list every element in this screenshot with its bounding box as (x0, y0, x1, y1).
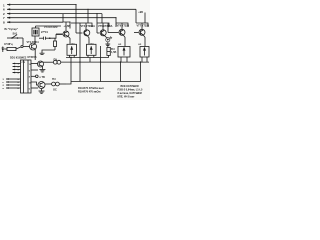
svg-text:47 МГц: 47 МГц (4, 43, 13, 46)
svg-text:+4,5В: +4,5В (64, 25, 71, 28)
svg-text:VT1 ГТ311: VT1 ГТ311 (27, 41, 40, 44)
svg-text:КПЕ, НЧ 8 вит: КПЕ, НЧ 8 вит (118, 95, 136, 98)
svg-text:1,5В: 1,5В (111, 51, 116, 54)
svg-text:VT6 КТ325: VT6 КТ325 (117, 24, 130, 27)
svg-text:ОС: ОС (53, 89, 57, 92)
svg-text:+9В: +9В (138, 11, 143, 14)
svg-text:КТ315Б: КТ315Б (28, 56, 37, 59)
svg-text:R19-R76 470 мкОм: R19-R76 470 мкОм (78, 90, 101, 93)
svg-text:27*С1: 27*С1 (41, 31, 49, 34)
svg-text:SA1: SA1 (13, 32, 18, 35)
svg-text:ПЧ: ПЧ (52, 78, 56, 81)
svg-text:к ТВ: к ТВ (40, 76, 45, 79)
svg-text:VT4 КТ368А: VT4 КТ368А (81, 25, 96, 28)
svg-text:ПЧ: ПЧ (54, 59, 58, 62)
svg-text:ЗЧ "Супер": ЗЧ "Супер" (4, 28, 19, 31)
svg-text:VT5 КТ368А: VT5 КТ368А (98, 25, 113, 28)
svg-text:VT7 КТ325: VT7 КТ325 (137, 24, 150, 27)
svg-text:VT3 КТ315Г: VT3 КТ315Г (44, 26, 59, 29)
svg-text:DD1 К155ИЕ2: DD1 К155ИЕ2 (10, 57, 27, 60)
